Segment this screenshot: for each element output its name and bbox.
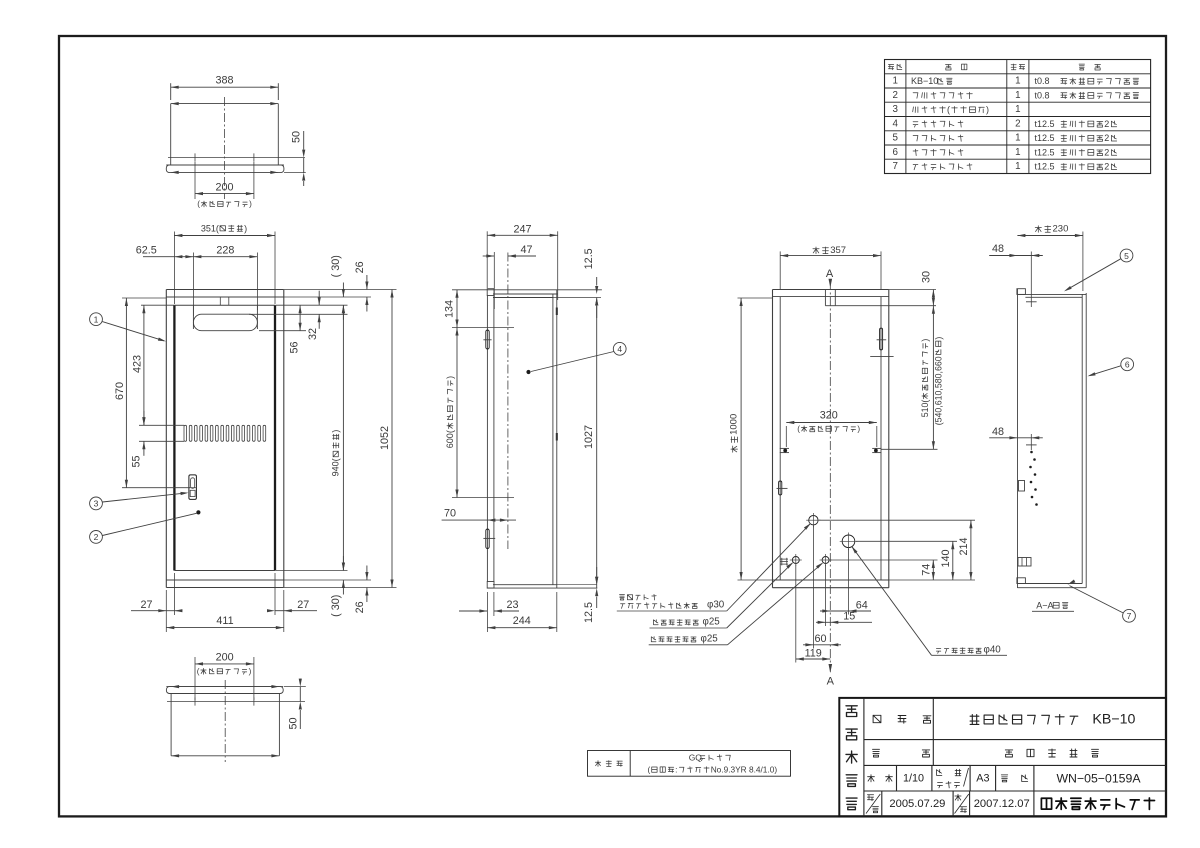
svg-text:1027: 1027	[583, 425, 595, 449]
svg-text:244: 244	[513, 615, 531, 627]
svg-text:t12.5: t12.5	[1035, 147, 1055, 157]
svg-text:214: 214	[958, 537, 970, 555]
svg-text:27: 27	[297, 599, 309, 611]
svg-text:): )	[857, 424, 860, 433]
svg-text:50: 50	[288, 717, 300, 729]
svg-text:1: 1	[1015, 76, 1020, 87]
svg-text:t12.5: t12.5	[1035, 162, 1055, 172]
svg-text:30: 30	[920, 271, 932, 283]
svg-text:φ40: φ40	[984, 645, 1002, 656]
svg-text:1: 1	[1015, 104, 1020, 115]
svg-text:388: 388	[215, 75, 233, 87]
svg-text:2: 2	[892, 90, 897, 101]
svg-text:228: 228	[216, 244, 234, 256]
svg-text:A: A	[826, 268, 834, 280]
svg-text:60: 60	[814, 633, 826, 645]
svg-text:(: (	[197, 667, 200, 676]
svg-text:A: A	[827, 676, 835, 688]
svg-text:1: 1	[1015, 133, 1020, 144]
svg-text:No.9.3YR 8.4/1.0): No.9.3YR 8.4/1.0)	[711, 765, 778, 775]
svg-text:600(: 600(	[445, 430, 455, 448]
svg-text:2: 2	[1015, 118, 1020, 129]
svg-text:): )	[986, 105, 989, 115]
svg-text:7: 7	[892, 161, 897, 172]
svg-text:411: 411	[216, 615, 233, 627]
svg-text:2: 2	[94, 532, 99, 542]
svg-text:119: 119	[805, 648, 822, 660]
svg-text:50: 50	[291, 131, 303, 143]
svg-text:26: 26	[354, 261, 366, 273]
svg-text:GQ: GQ	[689, 753, 703, 763]
svg-text:670: 670	[114, 382, 126, 400]
svg-text:1: 1	[1015, 90, 1020, 101]
svg-text:1: 1	[1015, 147, 1020, 158]
svg-text:φ30: φ30	[707, 600, 725, 611]
svg-text:4: 4	[892, 118, 898, 129]
svg-text:): )	[920, 339, 930, 342]
svg-text:2005.07.29: 2005.07.29	[889, 798, 945, 810]
svg-text:): )	[933, 337, 943, 340]
svg-text:t0.8: t0.8	[1035, 76, 1050, 86]
svg-text:): )	[249, 667, 252, 676]
svg-text:140: 140	[940, 549, 952, 567]
svg-text:56: 56	[288, 341, 300, 353]
svg-text:23: 23	[506, 599, 518, 611]
svg-text:2: 2	[1104, 162, 1109, 172]
svg-text:200: 200	[216, 651, 234, 663]
svg-text:2007.12.07: 2007.12.07	[974, 798, 1030, 810]
svg-text:357: 357	[830, 245, 846, 256]
svg-text:247: 247	[513, 223, 531, 235]
svg-text:): )	[249, 200, 252, 209]
svg-text:KB−10: KB−10	[1092, 712, 1135, 728]
svg-text:12.5: 12.5	[583, 248, 595, 269]
svg-text:1: 1	[892, 76, 897, 87]
svg-text:KB−10: KB−10	[911, 76, 938, 86]
svg-text:134: 134	[444, 300, 456, 318]
svg-text:A−A: A−A	[1036, 600, 1053, 610]
svg-text:( 30): ( 30)	[330, 595, 342, 617]
svg-text:15: 15	[843, 611, 855, 623]
svg-text:74: 74	[920, 564, 932, 576]
svg-text:230: 230	[1053, 224, 1069, 235]
svg-text:): )	[445, 376, 455, 379]
svg-text:(: (	[197, 200, 200, 209]
svg-text:2: 2	[1104, 133, 1109, 143]
svg-text:320: 320	[820, 410, 838, 422]
svg-text:1/10: 1/10	[903, 772, 924, 784]
svg-text:510(: 510(	[920, 400, 930, 418]
svg-text:1: 1	[1015, 161, 1020, 172]
svg-text:2: 2	[1104, 119, 1109, 129]
svg-text:1052: 1052	[379, 426, 391, 450]
svg-text:1000: 1000	[729, 414, 740, 435]
svg-text::: :	[675, 765, 677, 775]
svg-text:WN−05−0159A: WN−05−0159A	[1056, 771, 1141, 785]
svg-text:26: 26	[354, 601, 366, 613]
svg-text:423: 423	[131, 355, 143, 373]
svg-text:t0.8: t0.8	[1035, 90, 1050, 100]
svg-text:t12.5: t12.5	[1035, 119, 1055, 129]
svg-text:47: 47	[520, 244, 532, 256]
svg-text:62.5: 62.5	[136, 244, 157, 256]
svg-text:3: 3	[892, 104, 898, 115]
svg-text:5: 5	[892, 133, 898, 144]
svg-text:32: 32	[307, 328, 319, 340]
svg-text:6: 6	[892, 147, 898, 158]
svg-text:(: (	[947, 105, 950, 115]
svg-text:55: 55	[131, 455, 143, 467]
svg-text:(: (	[648, 765, 651, 775]
svg-text:48: 48	[992, 243, 1004, 255]
svg-text:): )	[331, 430, 341, 433]
svg-text:2: 2	[1104, 147, 1109, 157]
svg-text:1: 1	[94, 315, 99, 325]
svg-text:A3: A3	[976, 772, 989, 784]
svg-text:φ25: φ25	[703, 616, 721, 627]
svg-text:351(: 351(	[201, 223, 219, 233]
svg-text:7: 7	[1127, 611, 1132, 621]
svg-text:4: 4	[617, 344, 622, 354]
svg-text:27: 27	[140, 599, 152, 611]
svg-text:6: 6	[1125, 360, 1130, 370]
svg-text:200: 200	[215, 182, 233, 194]
svg-text:(: (	[797, 424, 800, 433]
svg-text:t12.5: t12.5	[1035, 133, 1055, 143]
svg-text:): )	[244, 223, 247, 233]
svg-text:64: 64	[856, 599, 868, 611]
svg-text:5: 5	[1124, 251, 1129, 261]
svg-text:3: 3	[94, 499, 99, 509]
svg-text:(540,610,580,660: (540,610,580,660	[933, 356, 943, 425]
svg-text:( 30): ( 30)	[330, 255, 342, 277]
svg-text:φ25: φ25	[701, 633, 719, 644]
svg-text:12.5: 12.5	[583, 602, 595, 623]
svg-text:940(: 940(	[331, 458, 341, 476]
svg-text:48: 48	[992, 426, 1004, 438]
svg-text:70: 70	[444, 508, 456, 520]
